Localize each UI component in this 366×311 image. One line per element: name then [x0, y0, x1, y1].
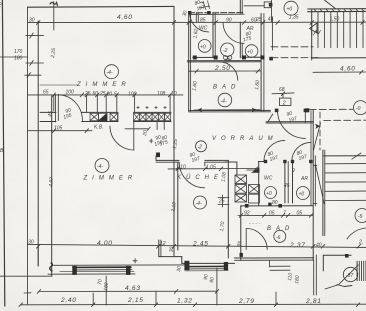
top right small rect [264, 2, 271, 8]
svg-text:2,50: 2,50 [214, 65, 231, 72]
wall between mid room and AR [239, 0, 241, 14]
svg-text:92: 92 [244, 211, 250, 217]
svg-text:108: 108 [157, 91, 166, 97]
AR right wall / stair wall [312, 110, 314, 260]
BAD door arc [246, 228, 267, 249]
svg-text:K.B.: K.B. [94, 125, 103, 131]
level circle WC top [198, 40, 211, 53]
svg-text:30: 30 [29, 17, 35, 23]
dashed datum line B [271, 57, 320, 59]
svg-text:30: 30 [169, 246, 176, 252]
WC top-room entry door arc [190, 13, 209, 32]
slash step mark [268, 114, 273, 122]
svg-text:110: 110 [287, 272, 294, 281]
BAD top wall [187, 60, 261, 62]
svg-text:+0: +0 [247, 50, 253, 56]
svg-text:-0: -0 [356, 106, 361, 112]
corridor niche wall double [156, 159, 179, 161]
WC door hinge squares [264, 160, 267, 163]
paper edge vertical line left [2, 0, 4, 306]
svg-text:KÜCHE: KÜCHE [177, 174, 223, 181]
svg-text:1,35: 1,35 [289, 15, 299, 21]
svg-text:-5: -5 [358, 214, 363, 220]
svg-text:85: 85 [200, 18, 206, 24]
WC door arc [264, 140, 285, 161]
svg-text:40: 40 [316, 242, 322, 248]
svg-text:60: 60 [93, 91, 99, 97]
stair zigzag mark [314, 31, 321, 36]
svg-text:4,60: 4,60 [117, 14, 133, 21]
svg-text:+0: +0 [200, 44, 206, 50]
4,60 right dim line [313, 71, 366, 73]
92/05/7/05 dim line [238, 214, 313, 216]
top wall of upper ZIMMER [28, 5, 175, 8]
svg-text:25: 25 [255, 17, 262, 23]
svg-text:25: 25 [84, 91, 91, 97]
bottom right walls [323, 254, 351, 256]
chain end tick [24, 292, 31, 294]
D2 small dim ticks [125, 128, 149, 130]
svg-text:105: 105 [54, 126, 63, 132]
svg-text:30: 30 [176, 266, 183, 272]
left chain tick y=35.5 [26, 35, 44, 37]
svg-text:100: 100 [66, 90, 75, 96]
level circle BAD bottom [274, 230, 286, 242]
pier box 3 [110, 113, 118, 120]
svg-text:2,37: 2,37 [289, 242, 306, 249]
section marker filled triangle [251, 167, 260, 172]
flue box col1 c [235, 194, 247, 202]
svg-text:180: 180 [294, 275, 301, 284]
AR door arc [292, 142, 311, 161]
short vertical below bottom wall [269, 260, 271, 267]
level circle AR bottom [297, 187, 310, 200]
svg-text:5: 5 [114, 92, 117, 98]
svg-text:VORRAUM: VORRAUM [212, 136, 278, 142]
25 tick lines right of kitchen [218, 197, 229, 199]
svg-text:20: 20 [142, 130, 149, 138]
niche wall left piece [155, 156, 157, 160]
flue box col2 plain [249, 194, 260, 203]
svg-text:BAD: BAD [267, 226, 294, 232]
walkline diagonal lower [316, 165, 325, 203]
level circle +0 stair top [284, 1, 298, 15]
svg-text:4,97: 4,97 [48, 177, 55, 188]
BAD door arc [219, 62, 238, 81]
stair risers upper flight [317, 12, 319, 48]
stairwell left wall [311, 9, 313, 60]
level circle upper ZIMMER [105, 65, 119, 79]
stair left wall lower [322, 150, 324, 236]
left outer wall vertical [37, 21, 39, 266]
level circle VORRAUM [196, 141, 207, 152]
bottom wall of WC row right piece [242, 56, 263, 58]
tread slash top right [352, 153, 361, 159]
jamb vertical at x=53.8 top [53, 2, 55, 31]
verticals WC left room [195, 13, 197, 22]
arc bottom right apartment door [347, 228, 366, 239]
boiler symbol [343, 267, 357, 281]
svg-text:2,45: 2,45 [192, 241, 209, 248]
svg-text:ZIMMER: ZIMMER [83, 176, 138, 182]
door D2 leaf vertical [133, 122, 135, 150]
door D1 swing arc [58, 95, 82, 121]
svg-text:4,60: 4,60 [340, 66, 356, 73]
window W2 right jamb [224, 262, 228, 270]
corner hook at SW of room [50, 263, 53, 271]
svg-text:9: 9 [292, 168, 295, 174]
svg-text:05: 05 [269, 211, 275, 217]
svg-text:AR: AR [300, 176, 308, 182]
SE step of lower ZIMMER [158, 240, 160, 257]
jamb vertical right of AR [271, 17, 273, 50]
window W2 left jamb [184, 261, 189, 270]
wall band bottom line [40, 121, 56, 123]
svg-text:1,60: 1,60 [254, 80, 261, 91]
top dimension line y=22.4 [28, 21, 366, 23]
dim extension verticals from y=95.8 [53, 95, 55, 111]
BAD bottom wall / VORRAUM top [189, 109, 271, 111]
svg-text:20: 20 [106, 92, 113, 98]
bottom dim line lower (2,40 ...) [21, 303, 366, 306]
105 dim line [28, 130, 93, 132]
tick marks above pier boxes [137, 107, 140, 109]
svg-text:2,81: 2,81 [305, 298, 322, 305]
level circle mid room top [221, 43, 234, 56]
scribble blob top [50, 2, 58, 5]
bottom wall of WC row left piece [193, 56, 216, 58]
svg-text:-4-: -4- [107, 70, 113, 76]
svg-text:4,00: 4,00 [97, 240, 113, 247]
svg-text:45: 45 [284, 183, 290, 189]
flue box col1 b [235, 185, 247, 194]
walkline dashed vertical [319, 112, 321, 150]
svg-text:100: 100 [128, 91, 137, 97]
svg-text:+0: +0 [287, 7, 293, 13]
level circle -0 right [354, 101, 366, 115]
svg-text:170: 170 [14, 49, 23, 55]
stair walk arrow start [310, 23, 318, 33]
landing wall line [312, 57, 366, 59]
svg-text:180: 180 [14, 56, 23, 62]
kitchen top wall right piece [205, 159, 229, 161]
hinge square at stair side [269, 57, 273, 61]
BAD left wall double [188, 12, 190, 112]
svg-text:-6: -6 [276, 235, 281, 241]
wall between WC and mid room [212, 14, 214, 58]
svg-text:1,32: 1,32 [177, 298, 193, 305]
svg-text:1,60: 1,60 [192, 81, 199, 92]
left chain tick y=75.2 [25, 74, 41, 76]
1,10 / 1,05 dim line [168, 168, 258, 170]
svg-text:4,63: 4,63 [125, 285, 141, 292]
BAD width dim line with arrows [194, 109, 260, 111]
bottom wall right double [235, 257, 314, 259]
door label box "2" [279, 98, 291, 105]
dashed datum to level circle [309, 108, 353, 110]
hatch band right edge [356, 261, 358, 280]
upper ZIMMER right wall [173, 6, 175, 122]
landing wall line 2 [324, 155, 366, 157]
ZIMMER lower-room right wall lines [173, 122, 175, 257]
diagonal break line top [324, 0, 336, 9]
WC door arc (left room) [223, 22, 244, 43]
svg-text:WC: WC [264, 176, 273, 182]
top thin wall dashes [189, 12, 244, 14]
left chain small dim line y=57 [0, 56, 28, 58]
svg-text:ZIMMER: ZIMMER [76, 82, 131, 88]
left dimension chain vertical [27, 7, 29, 304]
pier box 1 [90, 113, 99, 120]
AR door hinge squares [291, 160, 294, 163]
BAD right wall double [260, 14, 262, 112]
door D2 swing arc [110, 126, 134, 150]
svg-text:-2: -2 [198, 145, 203, 151]
plus tick above window right [133, 260, 137, 262]
svg-text:30: 30 [28, 240, 34, 246]
window W2 band [188, 265, 226, 267]
window W1 dark band [73, 266, 131, 268]
scribble cluster marks top [199, 1, 210, 11]
door D1 leaf [57, 94, 59, 120]
crossed boxes in wall band (masonry piers) [90, 106, 171, 121]
svg-text:WC: WC [199, 26, 208, 32]
svg-text:10: 10 [171, 91, 177, 97]
dimension line under ZIMMER labels y=95.8 [28, 94, 184, 96]
jamb verticals below pier band [156, 122, 158, 130]
svg-text:80: 80 [272, 200, 278, 206]
svg-text:12: 12 [160, 241, 166, 247]
level circle WC bottom [265, 187, 277, 199]
svg-text:68: 68 [279, 87, 285, 93]
svg-text:-4-: -4- [97, 164, 103, 170]
svg-text:+0: +0 [266, 191, 272, 197]
extension of x=38 wall to dim [37, 244, 39, 266]
level circle AR top [245, 45, 258, 58]
svg-text:2,79: 2,79 [238, 298, 255, 305]
left inner wall vertical [51, 96, 53, 276]
corridor door arc [278, 110, 306, 138]
east wall piece y=122 [266, 121, 313, 123]
verticals joining bottom dims [92, 293, 94, 305]
level circle KUECHE [194, 196, 207, 209]
svg-text:2,15: 2,15 [127, 297, 144, 304]
level circle -5 stair [355, 209, 366, 223]
stair top band hatch [314, 9, 316, 12]
svg-text:1,70: 1,70 [219, 221, 226, 232]
svg-text:-4-: -4- [221, 99, 227, 105]
dashed datum line A [271, 46, 313, 48]
level circle lower ZIMMER [95, 159, 109, 173]
svg-text:2: 2 [282, 100, 286, 106]
svg-text:180: 180 [103, 282, 110, 291]
svg-text:-2: -2 [223, 48, 228, 54]
WC top wall piece [258, 161, 265, 163]
window W3 lines [270, 265, 290, 267]
dashed datum line 2 [324, 119, 366, 121]
flue stack crossed boxes [235, 167, 260, 203]
window W1 right jamb [126, 266, 131, 275]
68 dim tick [272, 92, 294, 95]
dim ticks on top line [37, 21, 41, 25]
svg-text:25: 25 [218, 199, 225, 205]
stair top band double [308, 8, 366, 10]
pier box 2 with filled triangle [99, 113, 108, 120]
svg-text:70: 70 [97, 279, 104, 285]
svg-text:7: 7 [283, 211, 286, 217]
svg-text:1,08: 1,08 [221, 172, 228, 183]
svg-text:90: 90 [226, 18, 232, 24]
faint line left of ZIMMER label [40, 84, 77, 86]
svg-text:2,: 2, [358, 240, 363, 246]
WC left wall [258, 162, 260, 206]
black square niche corner [156, 153, 160, 158]
svg-text:1,62: 1,62 [193, 28, 200, 39]
svg-text:-87: -87 [346, 273, 353, 279]
svg-text:1,10: 1,10 [176, 165, 186, 171]
KUECHE right wall [227, 160, 229, 258]
walkline diagonal upper [314, 123, 321, 150]
BAD left wall [240, 206, 242, 260]
svg-text:05: 05 [297, 211, 303, 217]
svg-text:1,25: 1,25 [172, 139, 179, 150]
kitchen door arc [179, 162, 205, 188]
svg-text:-4-: -4- [196, 201, 202, 207]
wall between WC and AR double [284, 161, 286, 203]
svg-text:25: 25 [99, 91, 106, 97]
kitchen door leaf [204, 162, 206, 166]
bottom wall inner face of lower ZIMMER [52, 264, 188, 266]
hinge squares top [188, 11, 191, 14]
2,50 dim line [189, 70, 261, 72]
svg-text:65: 65 [43, 90, 49, 96]
wall band top line [40, 111, 56, 113]
svg-text:45: 45 [268, 17, 274, 23]
svg-text:+0: +0 [299, 192, 305, 198]
bottom dim line upper (4,63) [39, 290, 217, 292]
hinge squares of corridor door [275, 109, 279, 113]
svg-text:90: 90 [209, 277, 216, 283]
left chain tick y=63 [26, 62, 44, 64]
wall above WC lobby [225, 161, 237, 163]
hinge blobs on BAD top wall [245, 204, 249, 208]
level circle BAD top [218, 93, 232, 107]
faint annotation in BAD bottom [249, 222, 262, 224]
svg-text:BAD: BAD [213, 85, 240, 91]
svg-text:1,05: 1,05 [206, 164, 216, 170]
flue box col2 crossed [249, 185, 260, 194]
flue box col1 a [235, 175, 247, 184]
svg-text:2,40: 2,40 [60, 297, 77, 304]
lobby bottom wall (BAD top) [241, 205, 314, 207]
4,00 dimension line across y=246 [28, 244, 366, 247]
stair treads lower flight [325, 163, 366, 165]
pier boxes right group [134, 113, 140, 120]
svg-text:1,50: 1,50 [330, 16, 340, 22]
window W1 left jamb [72, 266, 77, 275]
outer wall face line to left edge [0, 275, 52, 277]
